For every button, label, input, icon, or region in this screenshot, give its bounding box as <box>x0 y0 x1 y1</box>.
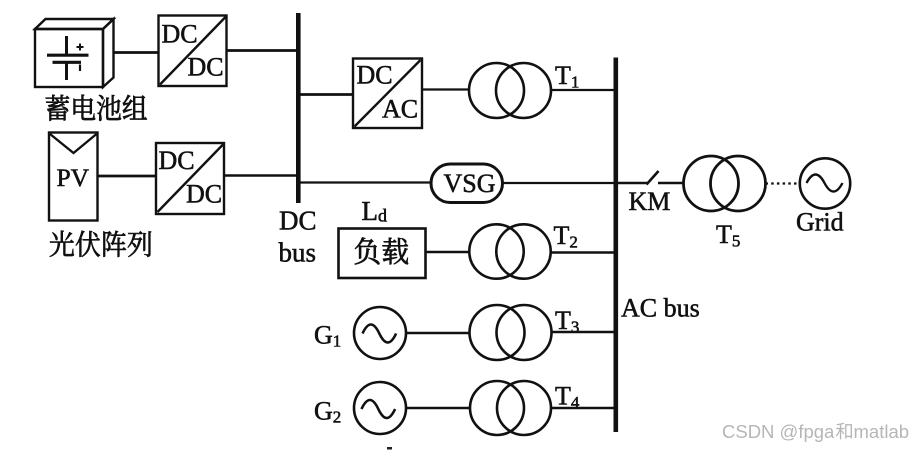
wire: AC bus to switch KM <box>618 182 648 184</box>
wire: DC bus to VSG <box>299 181 432 183</box>
svg-text:DC: DC <box>279 206 317 236</box>
converter: DC/AC inverter <box>353 59 422 129</box>
wire: VSG to AC bus <box>503 182 615 184</box>
wire: DC bus to DC/AC converter <box>299 93 353 96</box>
label: 蓄电池组 (battery pack) <box>46 95 147 121</box>
battery: storage battery pack (3D box with cell symbol) <box>35 19 114 87</box>
wire: load to transformer T2 <box>426 251 471 253</box>
svg-text:DC: DC <box>357 61 393 90</box>
wire: T3 to AC bus <box>552 331 615 333</box>
svg-text:DC: DC <box>162 20 198 49</box>
AC bus (vertical busbar) <box>614 58 619 433</box>
transformer T1 (two overlapping circles) <box>469 63 551 118</box>
svg-text:DC: DC <box>159 146 195 175</box>
wire: DC/DC 2 to DC bus <box>224 174 299 177</box>
svg-text:AC: AC <box>382 95 418 124</box>
watermark: CSDN @fpga和matlab <box>722 421 909 442</box>
svg-text:Grid: Grid <box>796 208 844 237</box>
svg-text:PV: PV <box>57 163 90 192</box>
wire: T5 to grid source <box>766 182 801 184</box>
grid source (circle with sine wave) <box>800 158 850 208</box>
generator G1 (circle with sine) <box>354 307 406 359</box>
svg-text:AC bus: AC bus <box>621 294 700 323</box>
wire: G1 to transformer T3 <box>406 332 470 334</box>
wire: T2 to AC bus <box>551 251 614 253</box>
stray ink dot <box>387 447 392 450</box>
svg-text:bus: bus <box>279 238 317 268</box>
converter: DC/DC converter 2 (PV side) <box>156 143 224 214</box>
DC bus (vertical busbar) <box>296 13 301 203</box>
wire: battery to DC/DC converter 1 <box>114 51 159 54</box>
wire: G2 to transformer T4 <box>406 407 470 409</box>
transformer T2 <box>469 224 550 278</box>
switch KM (breaker blade) <box>647 171 659 185</box>
wire: switch KM to transformer T5 <box>658 182 684 184</box>
wire: PV to DC/DC converter 2 <box>98 175 157 178</box>
svg-text:DC: DC <box>186 180 222 209</box>
transformer T3 <box>470 305 552 360</box>
generator G2 (circle with sine) <box>354 382 406 434</box>
wire: DC/AC to transformer T1 <box>422 88 470 90</box>
transformer T5 (two overlapping circles) <box>684 156 766 211</box>
wire: DC/DC 1 to DC bus <box>227 49 300 52</box>
svg-text:DC: DC <box>188 53 224 82</box>
wire: T1 to AC bus <box>551 89 614 91</box>
transformer T4 <box>470 381 551 435</box>
label: 光伏阵列 (PV array) <box>50 231 151 257</box>
converter: DC/DC converter 1 (battery side) <box>159 16 227 87</box>
svg-text:CSDN @fpga: CSDN @fpga <box>722 421 835 442</box>
VSG block (stadium shape) <box>431 164 503 203</box>
wire: T4 to AC bus <box>551 407 614 409</box>
svg-text:VSG: VSG <box>444 169 496 198</box>
svg-text:matlab: matlab <box>854 421 910 442</box>
svg-text:KM: KM <box>629 187 671 216</box>
PV: photovoltaic panel <box>49 133 98 221</box>
load box 负载 <box>339 229 426 279</box>
